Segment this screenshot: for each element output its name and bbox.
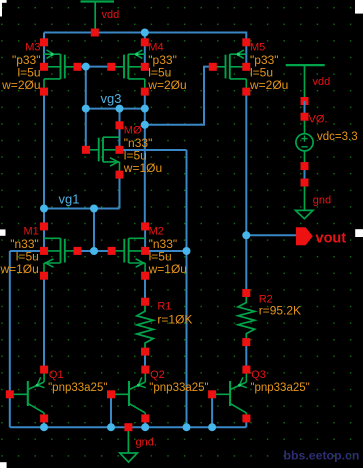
svg-text:vdd: vdd — [102, 9, 120, 21]
wire M1 bulk to left column — [10, 250, 44, 252]
white artifact left-mid — [0, 229, 6, 235]
svg-text:Q3: Q3 — [251, 369, 266, 381]
svg-text:w=1Øu: w=1Øu — [0, 262, 39, 276]
wire M3 drain to vg1 to M1 drain — [43, 92, 45, 227]
wire M5 source stub — [245, 32, 247, 43]
svg-text:w=2Øu: w=2Øu — [249, 78, 288, 92]
svg-text:M4: M4 — [148, 42, 163, 54]
svg-text:vg1: vg1 — [59, 192, 80, 207]
svg-text:M3: M3 — [25, 42, 40, 54]
wire Q3 base down — [211, 394, 213, 427]
pmos M3 — [43, 42, 45, 67]
svg-text:R1: R1 — [157, 301, 171, 313]
pmos M4 — [144, 42, 146, 67]
pnp Q1 — [10, 393, 28, 395]
wire left column to ground — [9, 251, 11, 427]
wire vg1 junction down to gate row — [93, 209, 95, 252]
vdd supply symbol top — [81, 0, 115, 2]
wire M1 gate to M2 gate — [78, 250, 112, 252]
white artifact bottom-left — [0, 462, 7, 468]
wire ground column right — [186, 150, 188, 427]
white artifact right-mid — [355, 229, 363, 237]
svg-text:vout: vout — [316, 230, 347, 246]
svg-text:"pnp33a25": "pnp33a25" — [48, 382, 107, 394]
wire Q2 collector stub — [144, 418, 146, 427]
white artifact top-right — [355, 0, 363, 14]
svg-text:Q2: Q2 — [150, 369, 165, 381]
svg-text:vdd: vdd — [313, 76, 331, 88]
junction dots — [141, 29, 149, 37]
svg-text:r=1ØK: r=1ØK — [157, 312, 192, 326]
svg-text:vdc=3.3: vdc=3.3 — [317, 131, 358, 143]
wire M3 source column — [43, 33, 45, 43]
svg-text:Q1: Q1 — [49, 369, 64, 381]
svg-text:w=1Øu: w=1Øu — [123, 161, 162, 175]
nmos M2 — [144, 226, 146, 251]
resistor R2 r=95.2K — [238, 297, 255, 342]
svg-text:VØ.: VØ. — [309, 113, 328, 125]
wire M0 drain stub — [119, 109, 121, 126]
wire vout tap — [246, 234, 296, 236]
pnp Q2 — [111, 393, 129, 395]
wire M0 bulk to ground column — [120, 149, 187, 151]
wire Q2 base down — [110, 394, 112, 427]
svg-text:w=1Øu: w=1Øu — [148, 262, 187, 276]
wire R1 to Q2 emitter — [144, 352, 146, 370]
white artifact top-left — [0, 0, 7, 3]
svg-text:r=95.2K: r=95.2K — [259, 304, 301, 318]
svg-text:vg3: vg3 — [101, 91, 122, 106]
wire M4 drain to M2 drain — [144, 92, 146, 227]
ground symbol bottom — [127, 427, 129, 453]
wire Q1 collector stub — [43, 418, 45, 427]
nmos M1 — [43, 226, 45, 251]
svg-text:"pnp33a25": "pnp33a25" — [149, 382, 208, 394]
wire M4 source stub — [144, 33, 146, 43]
wire M0 source down — [119, 175, 121, 209]
output pin vout — [296, 227, 313, 245]
wire R2 to Q3 emitter — [245, 342, 247, 370]
nmos M0 — [119, 125, 121, 150]
vdd supply symbol right — [286, 64, 325, 66]
svg-text:gnd: gnd — [313, 194, 331, 206]
pnp Q3 — [212, 393, 230, 395]
voltage source V0 vdc=3.3 — [304, 101, 306, 117]
svg-text:MØ: MØ — [124, 125, 142, 137]
svg-text:M1: M1 — [24, 226, 39, 238]
wire M1 source to Q1 emitter — [43, 277, 45, 370]
wire vg1 — [44, 208, 120, 210]
wire Q3 collector stub — [245, 418, 247, 427]
svg-text:w=2Øu: w=2Øu — [147, 78, 186, 92]
ground symbol right — [304, 183, 306, 211]
wire vg3 — [86, 108, 145, 110]
wire gate junction down to M0 gate — [85, 67, 87, 150]
svg-text:M5: M5 — [250, 42, 265, 54]
wire M2 source to R1 — [144, 277, 146, 302]
wire M5 gate to vg3 column — [145, 67, 211, 125]
wire M3 gate to M4 gate — [77, 66, 111, 68]
wire ground rail bottom — [10, 426, 247, 428]
wire M5 drain to vout to R2 — [245, 92, 247, 293]
wire vdd rail — [44, 32, 246, 34]
svg-text:w=2Øu: w=2Øu — [1, 78, 40, 92]
wire M2 bulk to ground column — [145, 250, 186, 252]
svg-text:gnd.: gnd. — [136, 437, 157, 449]
pmos M5 — [245, 42, 247, 67]
svg-text:bbs.eetop.cn: bbs.eetop.cn — [284, 448, 360, 462]
svg-text:"pnp33a25": "pnp33a25" — [250, 382, 309, 394]
resistor R1 r=10K — [137, 306, 154, 352]
svg-text:M2: M2 — [149, 226, 164, 238]
